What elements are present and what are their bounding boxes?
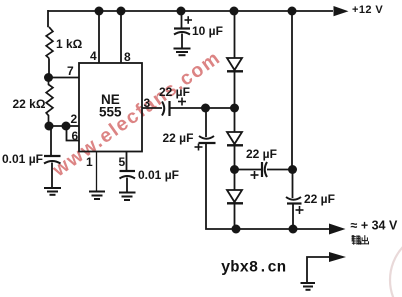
diode D2 [227,132,243,145]
wire: rail to C3 [181,11,183,28]
svg-text:22 µF: 22 µF [163,131,194,145]
svg-text:22 µF: 22 µF [246,147,277,161]
capacitor C1 0.01uF [44,156,61,164]
node: pin4 on rail [95,7,104,16]
svg-text:+12 V: +12 V [352,4,383,16]
wire: C4 to diode column [170,107,235,109]
svg-text:10 µF: 10 µF [192,24,223,38]
diode D3 [227,190,243,203]
wire: C2 to ground [126,178,128,193]
wire: pin 1 to ground [96,152,98,192]
svg-text:3: 3 [144,96,151,110]
svg-text:7: 7 [67,64,74,78]
wire: pin 8 [120,11,122,63]
diode D1 [227,58,243,71]
ground (C2) [119,193,136,201]
node: pin7 junction [44,73,53,82]
plus sign C6 [251,171,259,179]
ground (C3) [174,49,191,56]
wire: +12V top rail [48,10,333,12]
wire: node to D2 [234,108,236,132]
capacitor C7 22uF [286,197,302,204]
svg-text:22 µF: 22 µF [304,192,335,206]
arrow to ground net [329,252,346,262]
wire: node to C1 [50,126,52,156]
resistor R1 [46,27,53,58]
node: right column junction [288,165,297,174]
plus sign C4 [178,98,186,106]
wire: D2/D3 node to C6 [235,169,262,171]
wire: right column top [291,11,293,170]
power arrow +12V [334,6,349,16]
svg-text:555: 555 [99,105,122,120]
svg-text:1 kΩ: 1 kΩ [56,37,83,51]
ground (bottom right) [301,283,316,290]
node: output rail left [232,225,241,234]
plus sign C5 [195,144,203,151]
svg-text:1: 1 [86,155,93,169]
capacitor C2 0.01uF [120,171,136,179]
wire: C1 to ground [51,163,53,189]
wire: node to C7 [292,170,294,199]
capacitor C4 22uF [162,101,170,116]
capacitor C5 22uF [199,136,216,143]
node: C5 top [201,104,210,113]
node: output rail right [289,225,298,234]
IC U1 NE555 [79,63,142,152]
svg-text:4: 4 [90,49,97,63]
svg-text:≈ + 34 V: ≈ + 34 V [351,219,398,233]
wire: C7 to output rail [292,204,294,230]
plus sign C3 [185,16,193,24]
wire: pin 4 [98,11,100,63]
wire: C5 to output rail [206,143,330,229]
wire: pin 2 [49,125,79,127]
node: C3 on rail [177,7,186,16]
label shuchu (output) [352,235,369,245]
svg-text:8: 8 [124,50,131,64]
watermark circle logo [390,231,402,297]
wire: pin 3 to C4 [142,107,162,109]
svg-text:6: 6 [72,129,79,143]
svg-text:22 kΩ: 22 kΩ [13,97,46,111]
svg-text:5: 5 [119,155,126,169]
node: D2/D3 junction [230,165,239,174]
wire: node to D3 [234,170,236,190]
ground (C1) [44,188,61,195]
wire: C3 to ground [181,34,183,49]
svg-text:ybx8.cn: ybx8.cn [221,259,286,277]
resistor R2 [46,78,53,127]
svg-text:0.01 µF: 0.01 µF [138,168,179,182]
svg-text:22 µF: 22 µF [159,85,190,99]
wire: ground stub bottom right [307,257,330,282]
node: pins 2/6 junction left [45,122,54,131]
wire: D3 to output rail [234,202,236,229]
wire: rail corner down to R1 [47,10,49,27]
ground (pin 1) [89,192,105,200]
output arrow +34V [329,224,346,235]
wire: D1 to node [234,70,236,108]
node: right column on rail [288,7,297,16]
wire: pin 6 jog [67,126,80,141]
node: diode column on rail [230,7,239,16]
wire: R1 to pin7 node [48,58,50,78]
wire: rail to D1 [234,11,236,58]
watermark www.elecfans.com [48,46,225,181]
capacitor C6 22uF [262,162,267,177]
wire: pin 5 to C2 [126,152,128,171]
node: D1/D2 junction [230,104,239,113]
capacitor C3 10uF [174,29,190,35]
svg-text:0.01 µF: 0.01 µF [2,152,43,166]
node: pins 2/6 junction right [62,122,71,131]
wire: D2 to node [234,144,236,170]
wire: node to C5 [205,108,207,137]
node: pin8 on rail [117,7,126,16]
plus sign C7 [296,206,304,214]
wire: C6 to right column [267,169,293,171]
wire: pin 7 [49,77,80,79]
svg-text:2: 2 [71,112,78,126]
